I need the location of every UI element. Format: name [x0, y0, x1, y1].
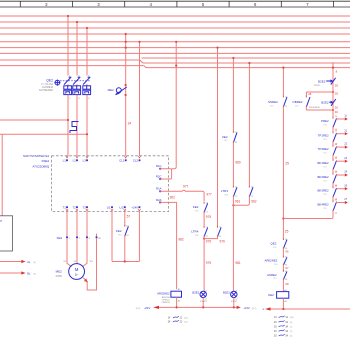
contact TP3RE2	[332, 142, 334, 145]
wire drop to parallel contact	[217, 48, 219, 227]
svg-text:96: 96	[285, 250, 289, 254]
contact BK2RE2	[332, 170, 334, 174]
svg-text:R1C: R1C	[156, 164, 162, 168]
wire bus L10 with jog	[0, 66, 350, 68]
wire bus L2 y=22	[0, 21, 350, 23]
svg-text:(7): (7)	[290, 331, 293, 333]
svg-text:CL1: CL1	[119, 158, 125, 162]
svg-text:M: M	[75, 267, 79, 272]
wire drop L3 phase	[86, 28, 88, 76]
contact parallel LTR4	[218, 227, 222, 236]
wire qe2-ar02	[282, 248, 284, 256]
wire to lamp B1E2	[232, 197, 234, 292]
wire bus L5 y=41.8	[0, 41, 350, 43]
svg-text:(7): (7)	[290, 326, 293, 328]
svg-text:(5): (5)	[290, 322, 293, 324]
lamp B2E2	[200, 291, 206, 297]
svg-text:PRE2: PRE2	[321, 119, 329, 123]
svg-text:CL2: CL2	[133, 158, 139, 162]
wire ar02-asre	[282, 265, 284, 271]
wire bus L6 y=47.6	[0, 47, 350, 49]
contact KE2	[204, 203, 208, 212]
svg-text:BK3RE2: BK3RE2	[318, 189, 329, 193]
svg-text:25: 25	[285, 230, 289, 234]
contact UE2	[233, 132, 237, 142]
svg-text:UE2: UE2	[222, 135, 228, 139]
relay coil KE2	[277, 292, 289, 299]
svg-text:KE2: KE2	[193, 205, 199, 209]
svg-text:BK2RE2: BK2RE2	[318, 175, 329, 179]
svg-text:R2C: R2C	[156, 174, 162, 178]
wire merge LTR4 pair	[204, 237, 217, 239]
svg-text:977: 977	[183, 184, 189, 188]
contact AR02NE2 aux	[283, 257, 287, 265]
svg-text:LI1: LI1	[107, 205, 111, 209]
ruler with column numbers	[0, 0, 350, 2]
svg-text:BK1RE2: BK1RE2	[318, 161, 329, 165]
svg-text:982: 982	[178, 237, 184, 241]
rail -24V right	[271, 308, 350, 310]
wire merge LTR3 pair	[233, 197, 249, 206]
svg-text:960: 960	[235, 160, 241, 164]
svg-text:QE2: QE2	[270, 242, 276, 246]
svg-text:(9.2): (9.2)	[136, 308, 141, 310]
svg-text:L2: L2	[73, 158, 77, 162]
wire drop L2 phase	[76, 22, 78, 76]
svg-text:R1A: R1A	[156, 187, 162, 191]
wire BK4RE2 to junction	[283, 211, 333, 219]
wire OBRE2 branch top	[306, 91, 333, 93]
svg-text:25: 25	[285, 162, 289, 166]
rail -24V left	[159, 306, 237, 308]
svg-text:962: 962	[251, 200, 257, 204]
wire KE2 to LTR4	[203, 212, 205, 226]
contact KE2 aux	[125, 226, 129, 236]
wire bus L1 y=16	[0, 15, 350, 17]
svg-text:TP1RE2: TP1RE2	[318, 134, 329, 138]
svg-text:LI2: LI2	[120, 205, 124, 209]
svg-text:SSRE2: SSRE2	[268, 100, 278, 104]
wire bus L4 y=34	[0, 33, 350, 35]
wire to KE2 coil	[282, 280, 284, 292]
svg-text:902: 902	[170, 196, 176, 200]
wire 902 from R2A	[160, 202, 176, 289]
wire LI2 upper	[124, 212, 126, 226]
contact BK3RE2	[332, 183, 334, 187]
svg-text:T1: T1	[63, 205, 67, 209]
wire tap to meter upper	[0, 119, 68, 121]
wire drop UE2 branch	[232, 58, 234, 132]
plug symbol on CL1	[116, 88, 121, 93]
soft starter SSE2 enclosure	[52, 156, 169, 212]
svg-text:979: 979	[206, 215, 212, 219]
svg-text:B1E2: B1E2	[223, 291, 230, 295]
wire +24V down	[138, 212, 140, 262]
meter box	[0, 216, 13, 251]
svg-text:979: 979	[206, 239, 212, 243]
lamp B1E2	[231, 291, 237, 297]
svg-text:961: 961	[235, 200, 241, 204]
svg-text:x1: x1	[235, 290, 237, 292]
wire lamp B2E2 to rail	[202, 298, 204, 308]
wire V1 to motor	[76, 238, 78, 263]
svg-text:XE2: XE2	[57, 236, 63, 240]
circuit breaker QE2 symbol	[55, 80, 60, 85]
wire to lamp B2E2	[203, 237, 205, 292]
svg-text:24: 24	[128, 122, 132, 126]
svg-text:3~: 3~	[75, 273, 79, 277]
svg-text:AR02NE2: AR02NE2	[265, 259, 278, 263]
svg-text:979: 979	[220, 239, 226, 243]
svg-text:x2: x2	[205, 298, 207, 300]
wire drop B2E2 line	[332, 62, 334, 117]
svg-text:(9): (9)	[33, 262, 36, 264]
contact LTR3	[233, 187, 237, 196]
svg-text:KE2: KE2	[116, 229, 122, 233]
svg-text:981: 981	[235, 261, 241, 265]
svg-text:979: 979	[206, 261, 212, 265]
wire LI2 lower	[124, 236, 126, 262]
wire L2 to starter	[76, 96, 78, 157]
offpage arrow AL2	[0, 272, 21, 274]
svg-text:OMRON: OMRON	[162, 302, 170, 304]
svg-text:(9): (9)	[33, 274, 36, 276]
contact QE2 aux	[283, 240, 287, 249]
wire coil to rail	[282, 298, 284, 309]
svg-text:98: 98	[285, 282, 289, 286]
contact TP1RE2	[332, 127, 334, 132]
terminals L1 L2 L3 CL1 CL2	[66, 156, 68, 158]
svg-text:B2E2: B2E2	[318, 79, 326, 83]
svg-text:B2E2: B2E2	[192, 291, 199, 295]
svg-text:OBRE2: OBRE2	[292, 100, 303, 104]
wire LI loop bottom	[112, 261, 139, 263]
svg-text:SSE2: SSE2	[42, 159, 50, 163]
svg-text:PROFIBUS: PROFIBUS	[309, 107, 320, 109]
wire tap to meter lower	[0, 133, 87, 135]
wire lamp B1E2 to rail	[233, 298, 235, 308]
wire PE stub	[96, 234, 98, 237]
svg-text:+24V: +24V	[131, 205, 138, 209]
wire T1 to XE2	[66, 212, 68, 237]
wire bus L9 with jog	[0, 60, 350, 63]
svg-text:977: 977	[206, 192, 212, 196]
wire 977 from R1A	[160, 190, 204, 201]
svg-text:(10): (10)	[290, 317, 294, 319]
svg-text:ME2: ME2	[108, 88, 115, 92]
contact SSRE2	[283, 97, 287, 107]
svg-text:SOFTSTARTER E2: SOFTSTARTER E2	[23, 154, 50, 158]
svg-text:T2: T2	[73, 205, 77, 209]
svg-text:ME2: ME2	[56, 269, 63, 273]
wire control mid	[282, 107, 284, 239]
svg-text:L3: L3	[83, 158, 87, 162]
svg-text:97: 97	[285, 266, 289, 270]
wire bus L8 y=58	[142, 57, 350, 59]
current transformer TE2 on L2	[70, 122, 79, 134]
wire drop CL1	[125, 34, 127, 156]
svg-text:(10): (10)	[184, 318, 188, 320]
svg-text:30: 30	[335, 106, 339, 110]
svg-text:28: 28	[308, 92, 312, 96]
svg-text:28: 28	[335, 84, 339, 88]
svg-text:APM-2A: APM-2A	[162, 296, 170, 299]
wire W1 to motor	[82, 238, 87, 266]
contact OBRE2	[305, 92, 307, 96]
svg-text:x2: x2	[235, 298, 237, 300]
wire bus L3 y=28	[0, 27, 350, 29]
offpage arrow AL1	[0, 261, 21, 263]
svg-text:KE2: KE2	[268, 293, 274, 297]
svg-text:R2A: R2A	[156, 198, 162, 202]
wire UE2 to LTR3	[232, 143, 234, 187]
svg-text:x1: x1	[205, 290, 207, 292]
svg-text:(9.2): (9.2)	[252, 308, 257, 310]
wire L3 to starter	[86, 96, 88, 157]
wire drop control	[282, 68, 284, 97]
wire LI1 down	[111, 212, 113, 262]
wire R1C-R2C jumper	[160, 169, 171, 179]
wire L1 to starter	[67, 96, 69, 157]
svg-text:AR02NE2: AR02NE2	[157, 291, 170, 295]
motor ME2 circle	[69, 264, 85, 280]
wire bus L7 y=53.4	[0, 52, 350, 54]
svg-text:START: START	[200, 300, 208, 303]
wire U1 to motor	[67, 238, 72, 266]
wire drop L1 phase	[67, 16, 69, 76]
relay AR02NE2 box	[171, 291, 182, 297]
svg-text:L1: L1	[63, 158, 67, 162]
svg-text:SCHNEIDER: SCHNEIDER	[39, 89, 53, 92]
wire drop parallel LTR3	[248, 63, 250, 186]
wire T3 to XE2	[86, 212, 88, 237]
svg-text:LTR4: LTR4	[191, 230, 198, 234]
svg-text:ATS22D88Q: ATS22D88Q	[32, 164, 49, 168]
svg-text:-24V: -24V	[243, 306, 249, 310]
contact PRE2	[332, 116, 334, 118]
svg-text:(11): (11)	[184, 322, 188, 324]
svg-text:TP3RE2: TP3RE2	[318, 147, 329, 151]
svg-text:-24V: -24V	[144, 306, 150, 310]
terminals T1 T2 T3 LI1 LI2 +24V	[66, 209, 68, 211]
contact ASRE2	[283, 271, 287, 279]
svg-text:T3: T3	[83, 205, 87, 209]
svg-text:P: P	[0, 219, 2, 223]
svg-text:57: 57	[127, 215, 131, 219]
wire PE to motor	[83, 238, 97, 290]
contact BK1RE2	[332, 156, 334, 160]
svg-text:ASRE2: ASRE2	[267, 273, 277, 277]
motor PE arrowhead	[84, 278, 88, 282]
svg-text:27kW: 27kW	[56, 275, 63, 278]
wire stub to meter box	[1, 135, 3, 216]
svg-text:PROF: PROF	[314, 85, 321, 87]
wire AR02NE2 to rail	[176, 297, 178, 307]
svg-text:(5): (5)	[290, 336, 293, 338]
svg-text:QE2: QE2	[46, 78, 53, 82]
svg-text:30: 30	[335, 110, 339, 114]
contact parallel LTR3	[249, 187, 253, 196]
svg-text:BK4RE2: BK4RE2	[318, 203, 329, 207]
svg-text:B2E2: B2E2	[321, 101, 329, 105]
contact BK4RE2	[332, 197, 334, 201]
contact LTR4	[204, 227, 208, 236]
wire drop CL2	[139, 42, 141, 156]
svg-text:LTR3: LTR3	[221, 189, 228, 193]
wire T2 to XE2	[76, 212, 78, 237]
wire drop bus to R1C	[172, 42, 177, 169]
wire OBRE2 branch bottom	[306, 109, 333, 111]
svg-text:28: 28	[335, 91, 339, 95]
